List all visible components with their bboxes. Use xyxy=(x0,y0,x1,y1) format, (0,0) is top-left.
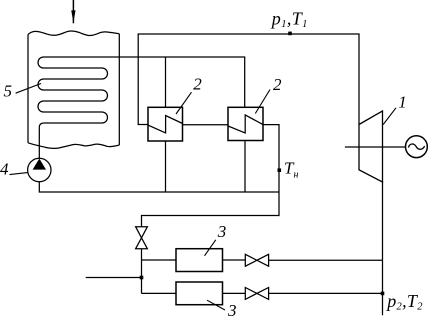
wire: HX1 feed from coil line xyxy=(165,57,167,107)
svg-text:2: 2 xyxy=(273,75,282,94)
svg-text:4: 4 xyxy=(0,160,9,179)
wire: pump outlet to feedwater header xyxy=(39,182,279,192)
wire: valve to exhaust line (top) xyxy=(269,259,383,261)
svg-text:5: 5 xyxy=(4,82,13,101)
svg-text:p2,T2: p2,T2 xyxy=(385,291,423,312)
wire: valve down through junction xyxy=(141,249,143,294)
wire: branch to heater 3 (bottom) xyxy=(142,292,177,294)
boiler 5 (furnace with wavy edges) xyxy=(28,31,119,148)
label 1 xyxy=(383,92,407,124)
wire: turbine exhaust down to p2,T2 xyxy=(382,182,384,315)
heater 3 (bottom) xyxy=(176,282,223,305)
wire: branch to heater 3 (top) xyxy=(142,259,177,261)
node Tn xyxy=(278,168,282,172)
node junction xyxy=(140,276,144,280)
pump 4 xyxy=(28,158,51,181)
node p2,T2 xyxy=(381,292,385,296)
wire: heater3 bottom to valve xyxy=(223,292,246,294)
valve (vertical) xyxy=(136,227,148,249)
label 2 (left) xyxy=(176,75,202,114)
wire: heater3 top to valve xyxy=(223,259,246,261)
heat exchanger 2 (left, U1) xyxy=(148,107,183,141)
label 4 xyxy=(0,160,28,179)
label 2 (right) xyxy=(255,75,282,114)
wire: main steam line HX1 to turbine xyxy=(138,34,359,125)
valve (top horizontal) xyxy=(245,254,268,266)
wire: valve to exhaust line (bottom) xyxy=(269,292,383,294)
svg-text:2: 2 xyxy=(193,75,202,94)
generator G xyxy=(406,136,428,158)
heat exchanger 2 (right) xyxy=(228,107,263,140)
shaft wire to generator xyxy=(345,146,406,148)
wire: feed line from left xyxy=(86,277,142,279)
svg-text:1: 1 xyxy=(398,92,407,111)
svg-text:3: 3 xyxy=(217,222,227,241)
valve (bottom horizontal) xyxy=(245,288,268,300)
fuel inlet arrow xyxy=(72,0,75,23)
wire: HX1-HX2 link xyxy=(183,124,229,126)
label 3 (top) xyxy=(205,222,227,256)
heater 3 (top) xyxy=(176,249,223,272)
wire: HX1 drain xyxy=(165,141,167,192)
label 3 (bottom) xyxy=(207,300,237,320)
svg-text:p1,T1: p1,T1 xyxy=(270,9,308,30)
node p1,T1 xyxy=(288,32,292,36)
svg-text:Tн: Tн xyxy=(284,159,298,181)
coil (serpentine heating surface) in boiler, and feed to HX2 xyxy=(38,57,245,158)
svg-text:3: 3 xyxy=(227,301,237,320)
wire: HX2 outlet / Tn line xyxy=(142,125,280,227)
turbine 1 xyxy=(359,111,383,182)
label 5 xyxy=(4,82,42,101)
wire: HX2 drain xyxy=(244,141,246,193)
